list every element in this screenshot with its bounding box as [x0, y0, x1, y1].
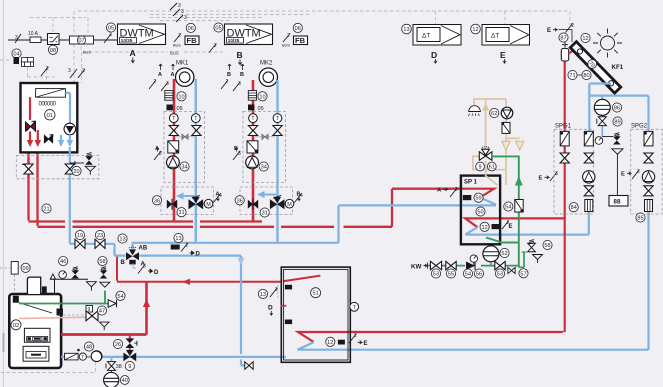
- svg-text:M: M: [206, 202, 211, 208]
- svg-text:40: 40: [122, 378, 128, 384]
- svg-text:A: A: [130, 48, 136, 58]
- svg-text:50: 50: [477, 210, 483, 216]
- svg-text:46: 46: [60, 259, 66, 265]
- svg-text:3: 3: [15, 35, 18, 41]
- slash marks count 3/3/3 top: [170, 3, 183, 22]
- control panels: [24, 328, 50, 342]
- MK1 shut-off valves: [169, 126, 178, 136]
- MK2 bypass mini valve: [255, 136, 275, 138]
- svg-text:2: 2: [159, 151, 162, 157]
- safety valve 20 with funnel: [70, 162, 84, 164]
- svg-text:26: 26: [115, 342, 121, 348]
- svg-text:BUS: BUS: [173, 44, 181, 48]
- svg-text:85: 85: [637, 216, 643, 222]
- svg-text:3: 3: [238, 151, 241, 157]
- svg-text:09: 09: [22, 266, 28, 272]
- svg-text:58: 58: [544, 243, 550, 249]
- blue return drop from boiler01: [70, 147, 74, 244]
- DWTM module A: [106, 23, 115, 32]
- valve 89: [597, 117, 607, 126]
- svg-text:12: 12: [582, 36, 588, 42]
- svg-text:M: M: [287, 202, 292, 208]
- svg-text:4: 4: [219, 193, 222, 199]
- svg-text:34: 34: [181, 165, 187, 171]
- sensor 54 on green line: [504, 202, 513, 211]
- shut-off valve on blue: [65, 164, 74, 174]
- svg-text:3: 3: [109, 32, 112, 38]
- svg-text:SP 1: SP 1: [464, 180, 478, 186]
- svg-text:55: 55: [448, 272, 454, 278]
- thermometer on tank right: [350, 302, 359, 311]
- svg-text:E: E: [621, 172, 625, 178]
- svg-text:10: 10: [259, 94, 265, 100]
- svg-text:86: 86: [614, 106, 620, 112]
- MK1 pump: [176, 68, 194, 86]
- FB remote 06 (A): [186, 23, 195, 32]
- MK2 shut-off valves: [248, 126, 257, 136]
- svg-text:38: 38: [116, 364, 122, 370]
- svg-text:A: A: [171, 72, 175, 78]
- svg-text:T: T: [81, 355, 84, 360]
- svg-text:MK2: MK2: [260, 61, 273, 67]
- svg-text:B: B: [121, 260, 126, 266]
- svg-text:2: 2: [637, 169, 640, 175]
- svg-text:SPG1: SPG1: [555, 124, 572, 130]
- svg-text:13: 13: [175, 236, 181, 242]
- svg-text:54: 54: [465, 272, 471, 278]
- switch 08: [48, 34, 60, 45]
- svg-text:D: D: [268, 305, 273, 312]
- svg-text:19: 19: [77, 233, 83, 239]
- shower head: [469, 106, 481, 116]
- svg-text:56: 56: [476, 272, 482, 278]
- svg-text:E: E: [509, 224, 513, 230]
- MK1 balancing valve 36: [167, 199, 177, 210]
- svg-text:10/35: 10/35: [121, 38, 133, 43]
- MK2 bypass arrow blue: [264, 194, 278, 196]
- solar red down pipe: [564, 61, 566, 333]
- svg-text:D: D: [154, 270, 159, 276]
- MK1 dashed box upper: [164, 112, 205, 183]
- blue drain valve at end of AB branch: [245, 362, 253, 370]
- motor valve 47 with funnel: [86, 306, 93, 313]
- solar coil in tank 51: [298, 332, 563, 342]
- svg-text:52: 52: [501, 251, 507, 257]
- svg-text:D: D: [431, 50, 437, 60]
- svg-text:07: 07: [78, 38, 84, 44]
- safety valve 58b with funnel: [523, 252, 525, 267]
- svg-text:3: 3: [184, 15, 187, 21]
- svg-text:3: 3: [143, 264, 146, 270]
- svg-text:13: 13: [260, 292, 266, 298]
- DWTM module B: [214, 23, 223, 32]
- svg-text:47: 47: [99, 309, 105, 315]
- svg-text:31: 31: [262, 211, 268, 217]
- boiler return thermostat + T + pump 48: [84, 342, 93, 351]
- svg-text:05: 05: [215, 26, 221, 32]
- red flow arrow on return line: [182, 279, 190, 285]
- MK1 thermometers: [169, 114, 178, 123]
- sensor 59: [463, 195, 472, 200]
- valve 53b: [495, 261, 505, 269]
- svg-text:12: 12: [481, 225, 487, 231]
- svg-text:ΔT: ΔT: [422, 33, 430, 40]
- svg-text:2: 2: [178, 33, 181, 39]
- svg-text:23: 23: [97, 233, 103, 239]
- MK2 pump: [259, 68, 277, 86]
- supply line with fuse: [8, 39, 118, 41]
- svg-text:84: 84: [571, 205, 577, 211]
- MK1 circuit pump 34: [167, 156, 180, 169]
- manometer: [595, 137, 603, 145]
- svg-text:31: 31: [178, 210, 184, 216]
- svg-text:12: 12: [327, 340, 333, 346]
- KW shut-off valve 53a: [430, 261, 441, 269]
- svg-text:2: 2: [571, 23, 574, 29]
- label 21: [42, 204, 51, 213]
- boiler 02 body: [9, 294, 61, 368]
- DHW 3-way valve (9/61): [479, 147, 492, 160]
- collector KF1: [570, 42, 621, 94]
- svg-text:48: 48: [86, 345, 92, 351]
- svg-text:FB: FB: [187, 36, 198, 45]
- svg-text:BUS: BUS: [282, 44, 290, 48]
- tan flow arrows (hollow): [502, 141, 510, 150]
- svg-text:ΔT: ΔT: [491, 33, 499, 40]
- drain valve 57: [508, 267, 515, 273]
- svg-text:10 A: 10 A: [28, 31, 39, 37]
- label 13 sensor D: [258, 289, 267, 298]
- svg-text:MK1: MK1: [176, 61, 189, 67]
- SP1 coil 1 (red in / blue out drawn before box): [460, 189, 494, 198]
- air separator 86: [594, 99, 610, 115]
- burner display: [36, 89, 66, 98]
- MK1 sensor well: [168, 141, 179, 153]
- svg-text:2: 2: [287, 33, 290, 39]
- svg-text:E: E: [364, 341, 368, 347]
- svg-text:71: 71: [569, 73, 575, 79]
- tank 51 double wall: [281, 267, 350, 362]
- svg-text:D: D: [196, 252, 201, 258]
- svg-text:08: 08: [50, 48, 56, 54]
- delta-T controller E (12): [471, 24, 481, 34]
- svg-text:2: 2: [186, 243, 189, 249]
- MK2 balancing valve 36: [248, 199, 258, 210]
- svg-text:06: 06: [295, 26, 301, 32]
- svg-text:01: 01: [47, 113, 53, 119]
- safety valve 58a to green: [98, 257, 107, 266]
- svg-text:KF1: KF1: [612, 64, 624, 71]
- svg-text:E: E: [547, 28, 551, 34]
- green safety line from boiler: [19, 291, 108, 304]
- svg-text:80: 80: [583, 73, 589, 79]
- svg-text:10/35: 10/35: [228, 38, 240, 43]
- MK1 connection module (black): [167, 105, 173, 111]
- SP1 coil 2: [465, 218, 565, 227]
- svg-text:53: 53: [497, 272, 503, 278]
- svg-text:B: B: [240, 72, 244, 78]
- sensor 13 on AB line: [174, 233, 183, 242]
- svg-text:34: 34: [261, 165, 267, 171]
- MK2 flow sensor (striped): [248, 91, 256, 101]
- svg-text:10: 10: [178, 94, 184, 100]
- red line valve13 to tank51: [117, 257, 320, 282]
- green cold water riser through SP1: [492, 156, 519, 236]
- svg-text:51: 51: [312, 291, 318, 297]
- DHW circulation pump 62: [501, 107, 513, 119]
- MK2 sensor well: [247, 141, 258, 153]
- drain valve 54a on green: [108, 300, 116, 307]
- valve 38 + filter 40: [111, 357, 113, 361]
- 3-way diverting valve 13 (AB/A/B): [132, 243, 134, 251]
- dashed service box under boiler01: [16, 156, 99, 179]
- chimney: [27, 277, 40, 294]
- svg-text:2: 2: [354, 333, 357, 339]
- svg-text:2: 2: [154, 79, 157, 85]
- svg-text:E: E: [539, 176, 543, 182]
- shut-off valve on red: [27, 159, 29, 179]
- svg-text:BUS: BUS: [83, 51, 91, 55]
- manometer 56: [470, 255, 477, 262]
- svg-text:3: 3: [68, 68, 71, 74]
- boiler01 red internals: mixing valve: [29, 97, 31, 120]
- solar blue return pipes: [589, 84, 649, 350]
- svg-text:02: 02: [13, 323, 19, 329]
- blue return main (MK collector): [115, 205, 461, 365]
- FB remote 06 (B): [293, 23, 302, 32]
- svg-text:000000: 000000: [39, 102, 57, 108]
- svg-text:B: B: [227, 72, 231, 78]
- svg-text:36: 36: [154, 198, 160, 204]
- svg-text:13: 13: [403, 27, 409, 33]
- svg-text:3: 3: [166, 81, 169, 87]
- boiler sensor right wall: [57, 309, 64, 316]
- svg-text:54: 54: [117, 294, 123, 300]
- svg-text:2: 2: [226, 79, 229, 85]
- red flow main 2 to SP1: [38, 143, 461, 227]
- svg-text:87: 87: [560, 36, 566, 42]
- svg-text:53: 53: [433, 272, 439, 278]
- svg-text:62: 62: [491, 111, 497, 117]
- electric heater 87: [562, 42, 568, 48]
- valves 19 and 23 on blue return: [74, 243, 115, 245]
- MK1 mixing valve 31 with motor: [189, 195, 204, 209]
- slash 3 before DWTM A: [104, 34, 111, 43]
- 3-way valve on return: [123, 350, 136, 361]
- svg-text:58: 58: [99, 259, 105, 265]
- red riser from boiler 02: [145, 282, 148, 335]
- MK2 thermometers: [249, 114, 258, 123]
- MK1 dashed box lower: [161, 187, 214, 215]
- blue return main bottom into tank: [242, 356, 286, 358]
- scan artifact left edge: [3, 0, 5, 387]
- expansion branch middle: [601, 96, 603, 137]
- svg-text:4: 4: [300, 193, 303, 199]
- check valve 54: [466, 262, 475, 270]
- SP1 tank body: [461, 176, 500, 245]
- svg-text:AB: AB: [139, 246, 148, 252]
- svg-text:SPG2: SPG2: [631, 124, 648, 130]
- tank sensors: [285, 285, 292, 290]
- MK2 dashed box upper: [243, 112, 286, 183]
- shut-off valve 26: [113, 339, 122, 348]
- MK1 flow/return risers: [173, 79, 176, 221]
- svg-text:FB: FB: [295, 36, 306, 45]
- small internal valve: [44, 135, 53, 143]
- outdoor sensor 04 with wall: [12, 49, 21, 58]
- svg-text:12: 12: [472, 27, 478, 33]
- tan up arrow on shower line: [482, 103, 489, 111]
- MK1 bypass mini valve: [176, 136, 194, 138]
- svg-text:BUS: BUS: [170, 51, 179, 56]
- svg-text:3: 3: [555, 171, 558, 177]
- svg-text:05: 05: [108, 26, 114, 32]
- svg-text:20: 20: [73, 169, 79, 175]
- svg-text:57: 57: [520, 271, 526, 277]
- MK2 connection module (black): [248, 105, 254, 111]
- svg-text:04: 04: [13, 52, 19, 58]
- boiler 02 red supply: [61, 333, 146, 336]
- bus dashed wiring top: [0, 11, 570, 83]
- sun: [593, 29, 622, 58]
- svg-text:9: 9: [128, 364, 131, 370]
- blue AB branch line: [115, 244, 245, 366]
- svg-text:2: 2: [455, 187, 458, 193]
- svg-text:13: 13: [119, 237, 125, 243]
- MK2 dashed box lower: [240, 187, 293, 215]
- MK2 flow/return risers: [252, 80, 255, 221]
- svg-text:B: B: [237, 50, 243, 60]
- svg-text:3: 3: [238, 81, 241, 87]
- boiler01 pump: [65, 93, 70, 123]
- bottom blue main: [61, 356, 242, 358]
- delta-T controller D (13): [402, 24, 412, 34]
- svg-text:61: 61: [489, 165, 495, 171]
- svg-text:59: 59: [475, 196, 481, 202]
- expansion vessel 52: [483, 246, 499, 262]
- svg-text:21: 21: [43, 207, 49, 213]
- svg-text:A: A: [158, 72, 162, 78]
- svg-text:88: 88: [614, 199, 621, 206]
- svg-text:89: 89: [614, 120, 620, 126]
- svg-text:2: 2: [214, 43, 217, 49]
- valve 55: [446, 261, 456, 269]
- safety group 46 on boiler top: [59, 257, 68, 266]
- svg-text:2: 2: [46, 66, 49, 72]
- svg-text:E: E: [500, 50, 506, 60]
- red flow main 1 (boiler 01 supply): [29, 143, 461, 227]
- svg-text:KW: KW: [411, 264, 421, 271]
- DHW sensor well: [502, 122, 510, 133]
- MK1 bypass arrow blue: [183, 195, 197, 197]
- label 12 sensor E at coil: [326, 337, 335, 346]
- MK2 circuit pump 34: [246, 156, 259, 169]
- svg-text:36: 36: [237, 198, 243, 204]
- svg-text:06: 06: [188, 26, 194, 32]
- MK1 flow sensor (striped): [165, 91, 173, 101]
- safety valve + funnel to 88: [602, 136, 613, 138]
- MK2 mixing valve 31 with motor: [270, 195, 285, 209]
- dashed control link bottom: [1, 362, 96, 372]
- svg-text:9: 9: [479, 165, 482, 171]
- sensor 12: [480, 222, 489, 231]
- expansion tank 09: [11, 262, 18, 275]
- svg-text:2: 2: [82, 68, 85, 74]
- svg-text:54: 54: [505, 205, 511, 211]
- controller box 07: [70, 36, 94, 44]
- internal lines: [19, 303, 52, 314]
